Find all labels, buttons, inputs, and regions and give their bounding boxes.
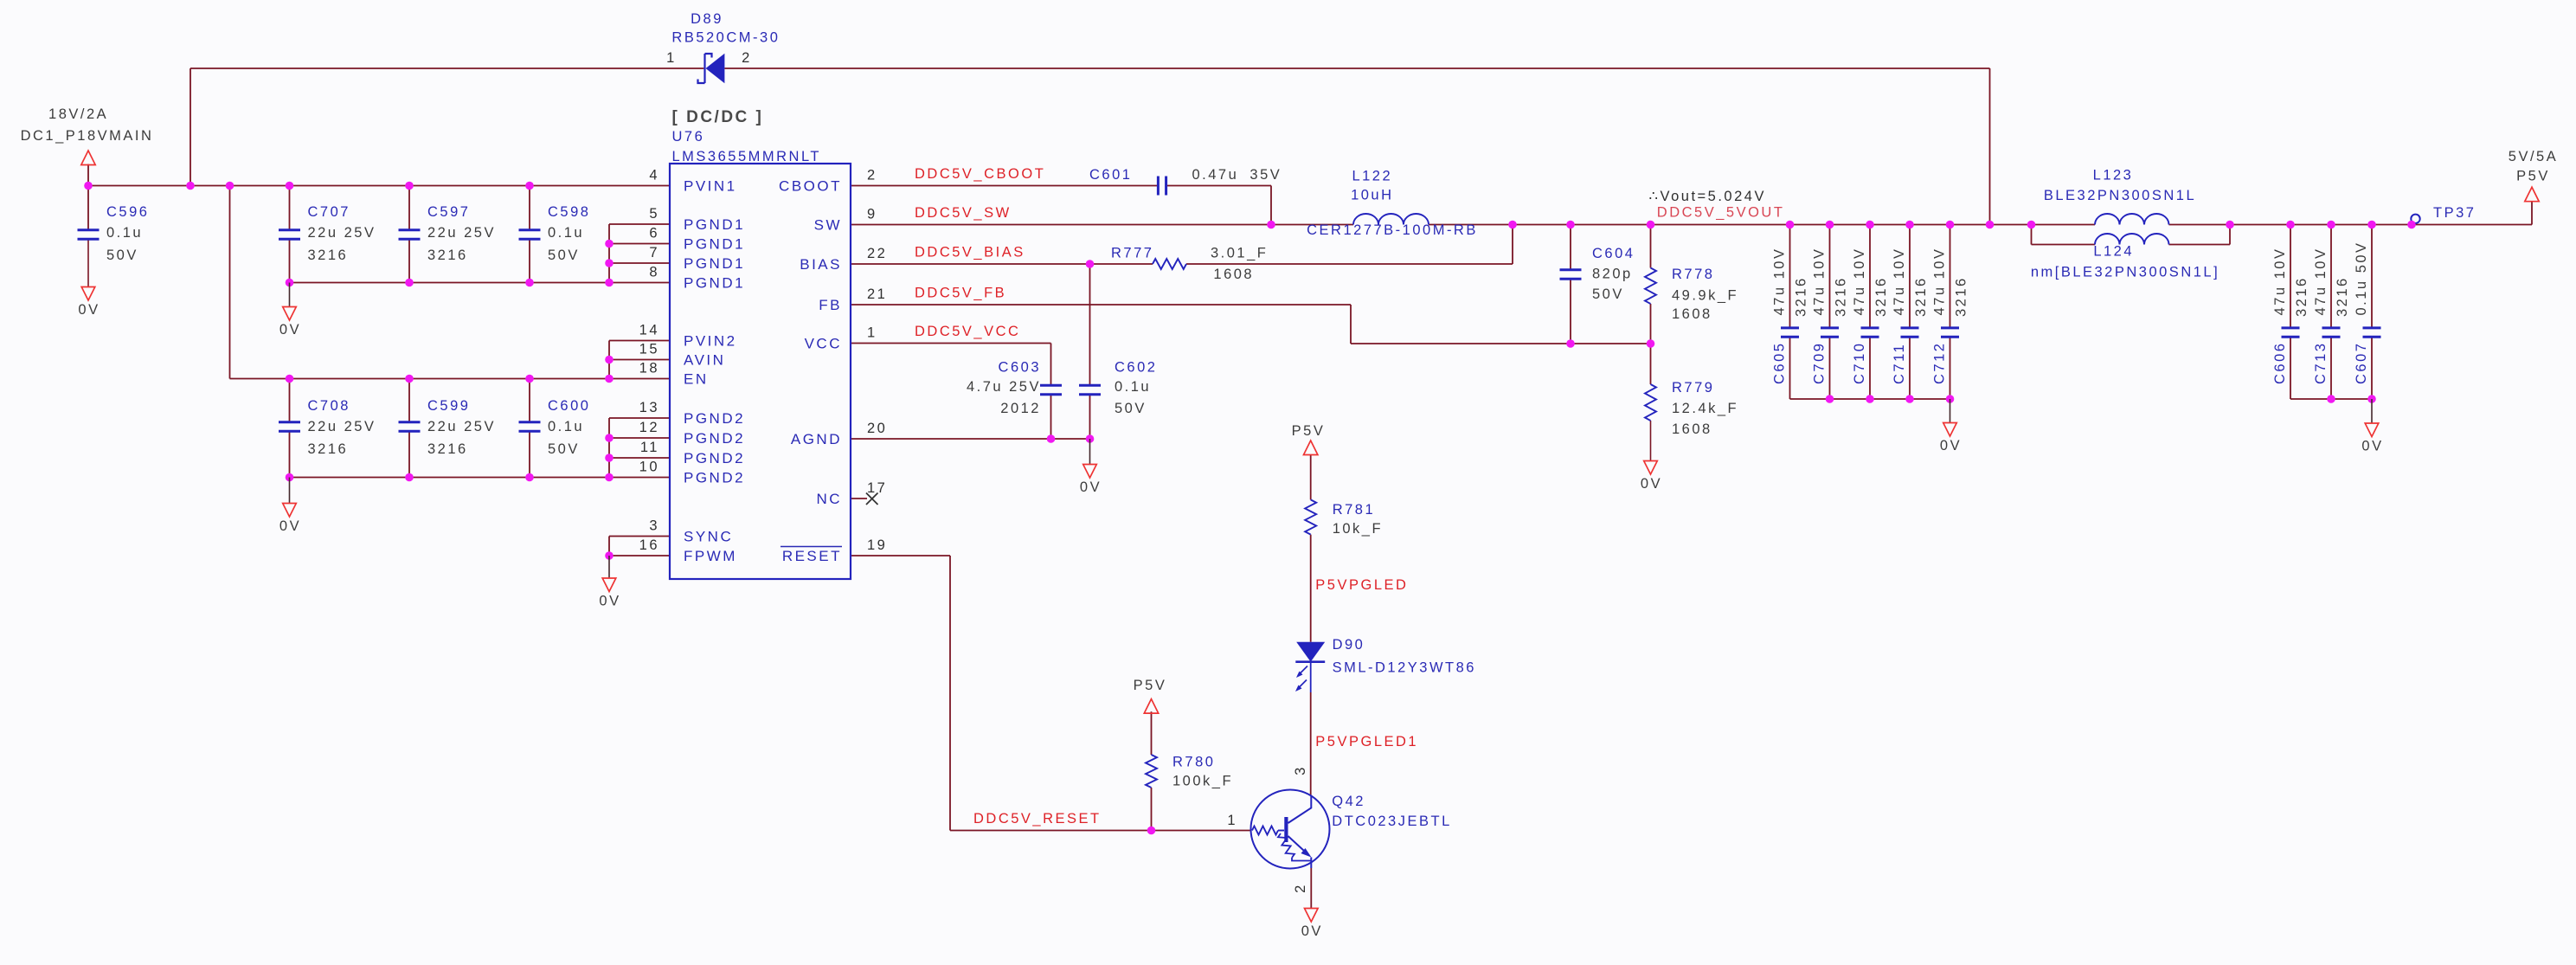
svg-text:C601: C601 [1089, 167, 1132, 183]
svg-text:22u 25V: 22u 25V [427, 225, 496, 241]
svg-text:22u 25V: 22u 25V [308, 225, 376, 241]
svg-text:11: 11 [640, 440, 659, 455]
svg-text:CBOOT: CBOOT [779, 178, 842, 195]
svg-text:2012: 2012 [1000, 401, 1041, 416]
svg-text:SW: SW [814, 217, 842, 234]
svg-text:4: 4 [649, 168, 659, 183]
svg-text:50V: 50V [1115, 401, 1147, 416]
svg-text:3.01_F: 3.01_F [1211, 246, 1268, 261]
svg-text:FB: FB [819, 297, 842, 313]
svg-text:C599: C599 [427, 398, 470, 414]
svg-text:C711: C711 [1892, 343, 1907, 384]
svg-text:50V: 50V [548, 248, 580, 263]
svg-text:0V: 0V [1301, 923, 1323, 939]
svg-text:C604: C604 [1592, 246, 1635, 261]
svg-text:C710: C710 [1852, 342, 1867, 384]
svg-text:47u 10V: 47u 10V [1892, 248, 1907, 316]
svg-text:3216: 3216 [1954, 276, 1969, 317]
svg-text:9: 9 [867, 207, 877, 222]
svg-text:PGND2: PGND2 [684, 470, 745, 486]
svg-text:C713: C713 [2313, 342, 2329, 384]
svg-text:L124: L124 [2093, 244, 2134, 260]
svg-text:1: 1 [666, 50, 677, 66]
svg-text:1608: 1608 [1213, 267, 1254, 282]
svg-text:22u 25V: 22u 25V [427, 419, 496, 434]
svg-text:0V: 0V [1641, 476, 1662, 492]
svg-text:18: 18 [639, 361, 659, 376]
svg-text:12.4k_F: 12.4k_F [1672, 401, 1738, 416]
svg-text:DDC5V_SW: DDC5V_SW [915, 205, 1012, 221]
svg-text:C600: C600 [548, 398, 590, 414]
svg-text:PVIN2: PVIN2 [684, 333, 737, 350]
svg-text:C603: C603 [999, 360, 1041, 376]
svg-text:C607: C607 [2354, 342, 2369, 384]
svg-text:13: 13 [639, 400, 659, 415]
svg-text:PGND2: PGND2 [684, 410, 745, 427]
svg-text:0.47u: 0.47u [1192, 167, 1239, 183]
svg-text:P5VPGLED: P5VPGLED [1315, 577, 1408, 593]
svg-text:BIAS: BIAS [800, 256, 842, 273]
svg-text:PVIN1: PVIN1 [684, 178, 737, 195]
svg-text:3216: 3216 [1873, 276, 1889, 317]
svg-text:C712: C712 [1932, 342, 1948, 384]
svg-text:35V: 35V [1249, 167, 1282, 183]
svg-text:3216: 3216 [427, 441, 468, 457]
svg-text:6: 6 [649, 226, 659, 241]
svg-text:DDC5V_5VOUT: DDC5V_5VOUT [1657, 205, 1785, 221]
svg-text:R778: R778 [1672, 267, 1714, 282]
svg-text:C602: C602 [1115, 360, 1157, 376]
svg-text:50V: 50V [1592, 286, 1624, 302]
svg-text:21: 21 [867, 286, 887, 302]
svg-text:22: 22 [867, 246, 887, 261]
svg-text:10k_F: 10k_F [1333, 521, 1383, 537]
svg-text:LMS3655MMRNLT: LMS3655MMRNLT [672, 149, 821, 164]
svg-text:47u 10V: 47u 10V [2313, 248, 2329, 316]
svg-text:DDC5V_FB: DDC5V_FB [915, 286, 1006, 301]
svg-text:D90: D90 [1333, 637, 1365, 653]
svg-text:C596: C596 [106, 204, 149, 220]
svg-text:3216: 3216 [427, 248, 468, 263]
svg-text:P5V: P5V [2516, 169, 2550, 184]
svg-text:7: 7 [649, 245, 659, 261]
svg-text:14: 14 [639, 323, 659, 338]
svg-text:0.1u: 0.1u [548, 225, 584, 241]
svg-text:DDC5V_CBOOT: DDC5V_CBOOT [915, 166, 1045, 182]
svg-text:50V: 50V [106, 248, 138, 263]
svg-text:0V: 0V [599, 594, 620, 609]
svg-text:U76: U76 [672, 129, 705, 145]
svg-text:C605: C605 [1772, 342, 1788, 384]
svg-text:NC: NC [816, 491, 842, 507]
svg-text:[ DC/DC ]: [ DC/DC ] [672, 108, 764, 126]
svg-text:DDC5V_VCC: DDC5V_VCC [915, 324, 1020, 339]
svg-text:5: 5 [649, 206, 659, 222]
svg-text:RB520CM-30: RB520CM-30 [671, 30, 780, 46]
svg-text:1608: 1608 [1672, 421, 1712, 437]
svg-text:DDC5V_BIAS: DDC5V_BIAS [915, 245, 1025, 261]
svg-text:49.9k_F: 49.9k_F [1672, 288, 1738, 304]
svg-text:SML-D12Y3WT86: SML-D12Y3WT86 [1333, 660, 1476, 676]
svg-text:BLE32PN300SN1L: BLE32PN300SN1L [2044, 188, 2196, 203]
svg-text:3216: 3216 [308, 248, 349, 263]
svg-text:TP37: TP37 [2433, 205, 2476, 221]
svg-text:P5V: P5V [1292, 423, 1326, 439]
svg-text:3216: 3216 [1834, 276, 1849, 317]
svg-text:PGND1: PGND1 [684, 255, 745, 272]
svg-text:0V: 0V [1080, 479, 1102, 495]
svg-text:R777: R777 [1111, 246, 1153, 261]
svg-text:CER1277B-100M-RB: CER1277B-100M-RB [1307, 222, 1478, 238]
svg-text:nm[BLE32PN300SN1L]: nm[BLE32PN300SN1L] [2031, 265, 2219, 280]
svg-text:5V/5A: 5V/5A [2509, 149, 2558, 164]
svg-text:PGND1: PGND1 [684, 216, 745, 233]
svg-text:SYNC: SYNC [684, 529, 733, 545]
svg-text:DDC5V_RESET: DDC5V_RESET [973, 811, 1102, 827]
svg-text:20: 20 [867, 421, 887, 436]
svg-text:PGND1: PGND1 [684, 275, 745, 292]
svg-text:3216: 3216 [308, 441, 349, 457]
svg-text:47u 10V: 47u 10V [1772, 248, 1788, 316]
svg-text:AVIN: AVIN [684, 352, 725, 369]
svg-text:2: 2 [1293, 883, 1308, 893]
svg-text:47u 10V: 47u 10V [1932, 248, 1948, 316]
svg-text:0.1u: 0.1u [1115, 379, 1151, 395]
svg-text:C598: C598 [548, 204, 590, 220]
svg-text:19: 19 [867, 537, 887, 553]
svg-text:2: 2 [742, 50, 752, 66]
svg-text:820p: 820p [1592, 267, 1633, 282]
svg-text:3216: 3216 [1794, 276, 1809, 317]
svg-text:∴Vout=5.024V: ∴Vout=5.024V [1649, 189, 1766, 204]
svg-text:10: 10 [639, 460, 659, 475]
svg-text:4.7u 25V: 4.7u 25V [967, 379, 1041, 395]
svg-text:R781: R781 [1333, 502, 1375, 518]
svg-text:P5VPGLED1: P5VPGLED1 [1315, 734, 1418, 749]
svg-text:18V/2A: 18V/2A [48, 106, 108, 122]
svg-text:L122: L122 [1352, 169, 1392, 184]
svg-text:EN: EN [684, 371, 709, 388]
svg-text:C707: C707 [308, 204, 350, 220]
svg-text:0V: 0V [279, 322, 301, 338]
svg-text:2: 2 [867, 168, 877, 183]
svg-text:47u 10V: 47u 10V [1812, 248, 1828, 316]
svg-text:10uH: 10uH [1351, 188, 1393, 203]
svg-text:3216: 3216 [2335, 276, 2350, 317]
svg-text:0V: 0V [2361, 439, 2383, 454]
svg-text:C708: C708 [308, 398, 350, 414]
svg-text:16: 16 [639, 537, 659, 553]
svg-text:1608: 1608 [1672, 306, 1712, 322]
svg-text:50V: 50V [548, 441, 580, 457]
svg-text:0V: 0V [78, 302, 100, 318]
svg-text:3216: 3216 [2294, 276, 2309, 317]
svg-text:C709: C709 [1812, 342, 1828, 384]
svg-text:FPWM: FPWM [684, 548, 737, 564]
svg-text:PGND1: PGND1 [684, 236, 745, 253]
svg-text:AGND: AGND [791, 431, 842, 447]
svg-text:17: 17 [867, 480, 887, 496]
svg-text:0.1u: 0.1u [548, 419, 584, 434]
svg-text:1: 1 [1227, 813, 1237, 828]
svg-text:0.1u: 0.1u [106, 225, 143, 241]
svg-text:0V: 0V [279, 518, 301, 534]
svg-text:3216: 3216 [1913, 276, 1929, 317]
svg-text:L123: L123 [2093, 168, 2134, 183]
svg-text:PGND2: PGND2 [684, 430, 745, 447]
svg-text:22u 25V: 22u 25V [308, 419, 376, 434]
svg-text:C597: C597 [427, 204, 470, 220]
svg-text:3: 3 [1293, 765, 1308, 775]
svg-text:0V: 0V [1940, 438, 1962, 454]
svg-text:D89: D89 [691, 11, 723, 27]
svg-text:15: 15 [639, 342, 659, 357]
svg-text:R779: R779 [1672, 380, 1714, 396]
svg-text:8: 8 [649, 265, 659, 280]
svg-text:DTC023JEBTL: DTC023JEBTL [1332, 814, 1451, 829]
svg-text:RESET: RESET [782, 548, 842, 564]
svg-text:100k_F: 100k_F [1172, 774, 1233, 789]
svg-text:P5V: P5V [1134, 678, 1167, 693]
svg-text:0.1u 50V: 0.1u 50V [2354, 241, 2369, 315]
svg-text:47u 10V: 47u 10V [2272, 248, 2288, 316]
svg-text:12: 12 [639, 420, 659, 435]
svg-text:PGND2: PGND2 [684, 450, 745, 466]
svg-text:VCC: VCC [805, 336, 842, 352]
svg-text:1: 1 [867, 325, 877, 341]
svg-text:Q42: Q42 [1332, 794, 1365, 809]
svg-text:C606: C606 [2272, 342, 2288, 384]
svg-text:DC1_P18VMAIN: DC1_P18VMAIN [21, 128, 154, 144]
svg-text:3: 3 [649, 518, 659, 534]
svg-text:R780: R780 [1172, 755, 1215, 770]
svg-text:47u 10V: 47u 10V [1852, 248, 1867, 316]
